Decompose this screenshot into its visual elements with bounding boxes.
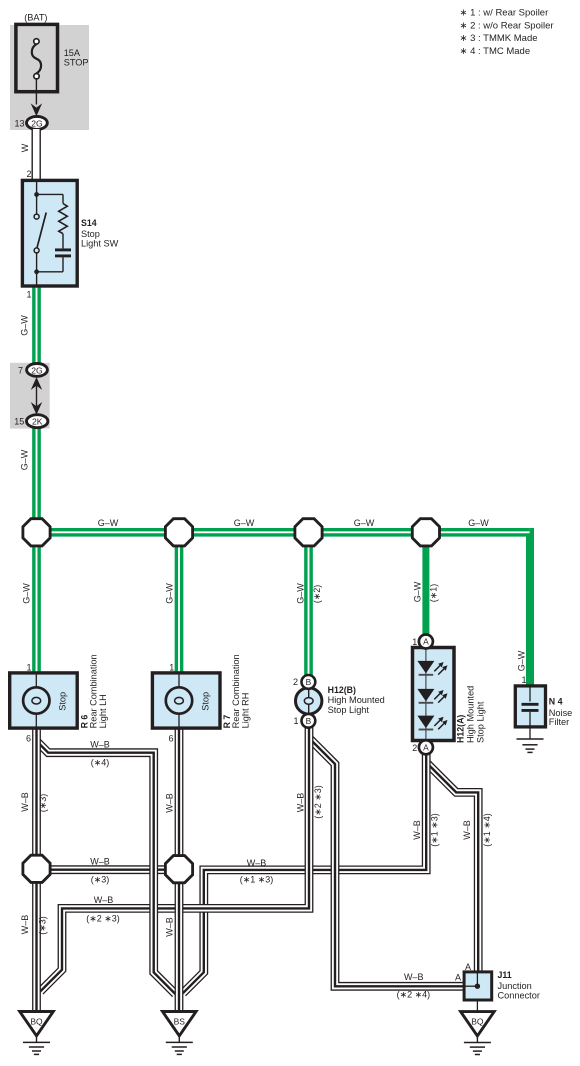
svg-text:Light RH: Light RH xyxy=(241,693,251,729)
svg-text:Stop: Stop xyxy=(81,229,100,239)
wire W-B (*2 *4) branch from H12(B) to J11 left xyxy=(310,739,465,986)
H12(A) pin 2 connector A xyxy=(419,740,433,754)
connector 2G pin 13 (oval) xyxy=(27,116,48,129)
wire W-B (*4) branch from R6 down to BS ground xyxy=(37,741,176,994)
svg-text:2: 2 xyxy=(293,677,298,687)
wire G-W connector 2K to junction xyxy=(32,427,41,532)
ground BQ (right, below J11) xyxy=(461,1012,495,1036)
fuse panel (gray) xyxy=(10,25,89,130)
connector 2K pin 15 (oval) xyxy=(27,415,48,428)
R7 bulb filament xyxy=(175,697,184,704)
svg-text:G–W: G–W xyxy=(20,449,30,470)
svg-text:B: B xyxy=(306,677,312,687)
svg-text:W–B: W–B xyxy=(462,820,472,840)
wire G-W bus branch down to noise filter N4 xyxy=(526,531,534,687)
svg-text:BQ: BQ xyxy=(30,1016,43,1026)
svg-text:H12(A): H12(A) xyxy=(456,715,466,743)
junction octagon E (W-B, R6 ground run) xyxy=(23,855,50,882)
S14 internal resistor xyxy=(37,193,63,195)
svg-text:G–W: G–W xyxy=(165,583,175,604)
S14 internal capacitor xyxy=(62,234,64,249)
lamp H12(B) High Mounted Stop Light xyxy=(296,688,322,714)
svg-text:7: 7 xyxy=(18,365,23,375)
svg-text:13: 13 xyxy=(14,119,24,129)
svg-text:2G: 2G xyxy=(31,365,43,375)
svg-text:J11: J11 xyxy=(498,970,512,980)
svg-text:15: 15 xyxy=(14,417,24,427)
svg-text:G–W: G–W xyxy=(354,518,375,528)
junction octagon F (W-B, R7 ground run) xyxy=(165,856,192,883)
N4 ground xyxy=(529,727,531,739)
svg-text:2G: 2G xyxy=(31,118,43,128)
wire W-B (*3) between lower junctions xyxy=(37,865,180,874)
svg-text:(∗2 ∗3): (∗2 ∗3) xyxy=(86,913,120,923)
wire W-B (*1 *3) H12(A) pin2 down, left, down to BS ground xyxy=(183,753,426,993)
svg-text:Stop: Stop xyxy=(58,692,68,711)
fuse 15A STOP xyxy=(16,24,58,91)
svg-text:Stop Light: Stop Light xyxy=(475,701,485,743)
svg-text:(∗2 ∗4): (∗2 ∗4) xyxy=(397,990,431,1000)
svg-text:W–B: W–B xyxy=(165,793,175,813)
lamp H12(A) High Mounted Stop Light (LED) xyxy=(413,648,455,741)
svg-text:(∗1 ∗3): (∗1 ∗3) xyxy=(240,875,274,885)
svg-text:High Mounted: High Mounted xyxy=(328,695,385,705)
svg-text:W–B: W–B xyxy=(20,792,30,812)
H12(B) pin 1 connector B xyxy=(302,714,316,728)
svg-text:1: 1 xyxy=(412,637,417,647)
ground BS xyxy=(163,1012,197,1036)
ground BQ (left) xyxy=(20,1012,54,1036)
wire W-B (*2 *3) H12(B) pin1 down, left, down to BQ ground xyxy=(40,714,309,991)
svg-text:G–W: G–W xyxy=(468,518,489,528)
svg-text:(∗2): (∗2) xyxy=(312,585,322,604)
svg-text:Stop Light: Stop Light xyxy=(328,705,370,715)
svg-text:BQ: BQ xyxy=(471,1016,484,1026)
svg-text:G–W: G–W xyxy=(296,583,306,604)
svg-text:Connector: Connector xyxy=(498,990,540,1000)
svg-text:W–B: W–B xyxy=(165,917,175,937)
svg-text:(∗1): (∗1) xyxy=(429,584,439,603)
svg-text:Light SW: Light SW xyxy=(81,239,119,249)
svg-text:W–B: W–B xyxy=(247,858,267,868)
switch S14 Stop Light SW xyxy=(22,180,77,286)
svg-text:1: 1 xyxy=(26,290,31,300)
svg-text:1: 1 xyxy=(521,675,526,685)
svg-text:Light LH: Light LH xyxy=(98,694,108,728)
svg-text:(∗3): (∗3) xyxy=(38,794,48,813)
svg-text:G–W: G–W xyxy=(98,518,119,528)
noise filter N4 xyxy=(515,686,545,727)
svg-text:W–B: W–B xyxy=(404,972,424,982)
R6 bulb filament xyxy=(32,697,41,704)
LED 2 in H12(A) xyxy=(417,689,434,702)
svg-text:2: 2 xyxy=(412,743,417,753)
svg-text:(∗4): (∗4) xyxy=(91,757,110,767)
svg-text:S14: S14 xyxy=(81,218,97,228)
junction octagon D (bus / H12(A) branch) xyxy=(412,519,439,546)
junction connector J11 xyxy=(476,1000,478,1012)
lamp R7 Rear Combination Light RH xyxy=(152,673,220,728)
svg-text:A: A xyxy=(455,972,461,982)
svg-text:High Mounted: High Mounted xyxy=(466,686,476,743)
svg-text:(BAT): (BAT) xyxy=(24,13,47,23)
svg-text:W: W xyxy=(20,143,30,152)
wire W connector 2G to S14 pin2 xyxy=(32,129,41,181)
svg-text:1: 1 xyxy=(26,662,31,672)
svg-text:BS: BS xyxy=(174,1016,186,1026)
junction octagon A (bus / S14 branch) xyxy=(23,519,50,546)
svg-text:2K: 2K xyxy=(32,417,43,427)
svg-text:2: 2 xyxy=(26,169,31,179)
wire G-W junction to R7 pin1 xyxy=(175,532,184,674)
svg-text:STOP: STOP xyxy=(64,58,89,68)
junction octagon B (bus / R7 branch) xyxy=(165,519,192,546)
svg-text:H12(B): H12(B) xyxy=(328,685,356,695)
svg-text:Stop: Stop xyxy=(200,692,210,711)
svg-text:W–B: W–B xyxy=(20,915,30,935)
svg-text:6: 6 xyxy=(168,734,173,744)
arrow into connector 2G xyxy=(31,103,42,116)
lamp R6 Rear Combination Light LH xyxy=(10,673,78,728)
svg-text:G–W: G–W xyxy=(20,315,30,336)
wire W-B R7 pin6 down through junction to BS ground xyxy=(175,728,184,1012)
svg-text:W–B: W–B xyxy=(295,793,305,813)
svg-text:G–W: G–W xyxy=(413,581,423,602)
svg-text:(∗1 ∗3): (∗1 ∗3) xyxy=(430,813,440,847)
wire G-W main bus (horizontal) xyxy=(37,528,530,537)
wire G-W junction to R6 pin1 xyxy=(32,532,41,674)
svg-text:(∗1 ∗4): (∗1 ∗4) xyxy=(482,813,492,847)
junction octagon C (bus / H12(B) branch) xyxy=(295,519,322,546)
svg-text:G–W: G–W xyxy=(22,583,32,604)
svg-text:A: A xyxy=(423,743,429,753)
svg-text:W–B: W–B xyxy=(90,857,110,867)
svg-text:B: B xyxy=(306,716,312,726)
svg-text:∗ 2 : w/o Rear Spoiler: ∗ 2 : w/o Rear Spoiler xyxy=(460,20,554,31)
wire fuse to connector 2G xyxy=(35,79,37,105)
wire W-B (*1 *4) branch from H12(A) to J11 top xyxy=(426,762,478,973)
arrow down into 2K xyxy=(31,402,42,415)
wire G-W junction to H12(A) pin1 (*1) xyxy=(422,532,429,636)
connector panel 2G/2K (gray) xyxy=(10,363,50,429)
svg-text:Filter: Filter xyxy=(549,717,569,727)
arrow up into 2G xyxy=(31,377,42,390)
connector 2G pin 7 (oval) xyxy=(27,364,48,377)
svg-text:(∗3): (∗3) xyxy=(91,874,110,884)
svg-text:N 4: N 4 xyxy=(549,697,563,707)
svg-text:A: A xyxy=(465,962,471,972)
svg-text:W–B: W–B xyxy=(90,739,110,749)
H12(A) pin 1 connector A xyxy=(419,635,433,649)
wire G-W S14 pin1 to connector 2G xyxy=(32,284,41,365)
svg-text:(∗2 ∗3): (∗2 ∗3) xyxy=(313,785,323,819)
S14 switch lever xyxy=(37,213,46,249)
svg-text:W–B: W–B xyxy=(412,820,422,840)
svg-text:6: 6 xyxy=(26,734,31,744)
svg-text:G–W: G–W xyxy=(234,518,255,528)
arrow shaft between 2G and 2K xyxy=(36,386,38,406)
svg-text:(∗3): (∗3) xyxy=(38,916,48,935)
wire G-W junction to H12(B) pin2 xyxy=(304,532,313,676)
H12(B) pin 2 connector B xyxy=(302,675,316,689)
svg-text:G–W: G–W xyxy=(517,650,527,671)
svg-text:A: A xyxy=(423,637,429,647)
svg-text:W–B: W–B xyxy=(94,895,114,905)
svg-text:1: 1 xyxy=(169,662,174,672)
svg-text:∗ 3 : TMMK Made: ∗ 3 : TMMK Made xyxy=(460,33,538,44)
svg-text:15A: 15A xyxy=(64,48,81,58)
wire W-B R6 pin6 down through junction to BQ ground xyxy=(32,728,41,1012)
LED 3 in H12(A) xyxy=(417,716,434,729)
svg-text:1: 1 xyxy=(293,716,298,726)
svg-text:∗ 4 : TMC Made: ∗ 4 : TMC Made xyxy=(460,46,531,57)
svg-text:∗ 1 : w/ Rear Spoiler: ∗ 1 : w/ Rear Spoiler xyxy=(460,8,549,19)
LED 1 in H12(A) xyxy=(417,661,434,674)
